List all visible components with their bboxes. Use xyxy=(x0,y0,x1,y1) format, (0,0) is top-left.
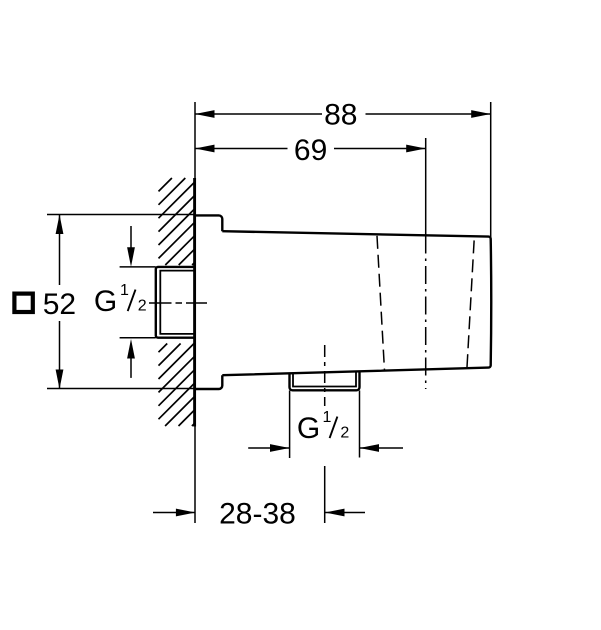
svg-text:2: 2 xyxy=(138,298,147,315)
svg-text:2: 2 xyxy=(340,425,349,442)
svg-text:1: 1 xyxy=(323,409,332,426)
svg-text:52: 52 xyxy=(43,288,76,321)
svg-text:G: G xyxy=(297,412,320,445)
svg-text:1: 1 xyxy=(120,282,129,299)
svg-text:G: G xyxy=(94,285,117,318)
svg-text:28-38: 28-38 xyxy=(219,498,296,531)
svg-text:88: 88 xyxy=(324,99,357,132)
svg-text:69: 69 xyxy=(294,134,327,167)
